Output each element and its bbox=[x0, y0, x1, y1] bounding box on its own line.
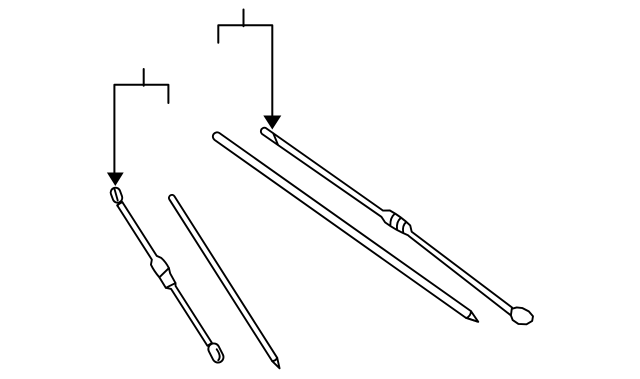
rod 1 bottom capsule bbox=[208, 343, 223, 362]
rod 4 acorn end cap bbox=[511, 307, 533, 324]
rod 4 barrel rib 1 bbox=[390, 214, 394, 225]
rod 4 tip joint line bbox=[273, 133, 278, 145]
rod 1 body bbox=[117, 202, 212, 346]
callout arrow 1 bbox=[107, 173, 124, 187]
rod 2 cone base arc bbox=[272, 358, 277, 361]
rod 4 acorn end cap bbox=[511, 307, 533, 324]
rod 4 barrel rib 3 bbox=[403, 222, 406, 232]
callout bracket 2 (right) bbox=[218, 10, 272, 117]
rod 1 tip capsule bbox=[111, 188, 123, 203]
rod 1 bottom capsule bbox=[208, 343, 223, 362]
callout arrow 2 bbox=[263, 116, 281, 130]
rod 1 bottom capsule inner arc bbox=[217, 349, 220, 360]
rod 3 long plain rod bbox=[213, 132, 478, 321]
rod 4 barrel rib 2 bbox=[397, 218, 401, 229]
rod 1 tip capsule bbox=[111, 188, 123, 203]
rod 4 mast (right, with ribbed barrel) bbox=[261, 128, 512, 316]
rod 1 mast (left, with step ferrule) bbox=[117, 202, 212, 346]
rod 4 body bbox=[261, 128, 512, 316]
rod 1 tip capsule inner line bbox=[114, 189, 117, 201]
rod 3 cone base arc bbox=[466, 311, 471, 318]
rod 3 tip facet line bbox=[467, 318, 477, 322]
callout bracket 1 (left) bbox=[114, 69, 168, 174]
rod 2 plain rod (center-left) bbox=[169, 195, 280, 368]
rod 2 body bbox=[169, 195, 280, 368]
rod 1 ferrule step line 1 bbox=[159, 268, 169, 277]
rod 1 neck arc bbox=[118, 203, 123, 206]
rod 1 ferrule step line 2 bbox=[166, 283, 176, 288]
rod 3 body bbox=[213, 132, 478, 321]
